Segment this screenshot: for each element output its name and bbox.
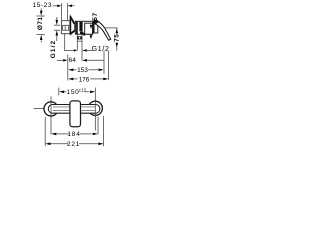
escutcheon housing box (side view) — [61, 21, 70, 34]
outlet nipple bottom edge — [77, 40, 82, 42]
handle lever base cap — [93, 20, 99, 24]
dim 153 line left segment — [73, 69, 76, 71]
dim 15-23 line left segment — [53, 5, 58, 7]
dim 176 left arrow — [68, 78, 73, 81]
dim 221 left extension line — [44, 117, 46, 146]
escutcheon cone bottom slant — [70, 30, 75, 35]
dim 75 line upper segment — [116, 28, 118, 33]
left circle centerline / dim 184 left extension — [50, 96, 52, 134]
dim 176 line right segment — [90, 78, 103, 80]
dim 57 lower arrow — [90, 35, 93, 39]
dim 153 left arrow — [68, 69, 73, 72]
dim 64 line right segment — [87, 59, 104, 61]
dim 15-23 right extension line — [66, 3, 68, 20]
dim 184 left arrow — [51, 133, 56, 136]
dim O71 top tick — [37, 15, 45, 17]
right escutcheon circle (front view) — [88, 101, 102, 115]
dim 150 left extension line — [58, 88, 60, 96]
dim 150 right extension line / right circle centerline — [94, 88, 96, 131]
svg-text:15-23: 15-23 — [32, 2, 52, 9]
dim 57 upper arrow — [90, 25, 93, 29]
dim 221 left arrow — [45, 143, 50, 146]
dim 176 right extension line — [108, 51, 110, 80]
dim G1/2 supply upper tail — [56, 17, 58, 20]
dim 221 right arrow — [98, 143, 103, 146]
tube inner line bottom-left — [53, 110, 70, 112]
outlet right extension line — [81, 41, 83, 60]
dim 15-23 line right segment — [68, 5, 74, 7]
dim 184 line right segment — [80, 133, 92, 135]
dim O71 bottom tick — [37, 34, 45, 36]
svg-text:G1/2: G1/2 — [92, 46, 110, 53]
dim 64 line left segment — [57, 59, 63, 61]
right circle centerline overlay — [94, 100, 96, 118]
svg-text:Ø71: Ø71 — [37, 17, 44, 31]
supply pipe drop line — [64, 34, 66, 51]
svg-text:150: 150 — [67, 89, 80, 96]
handle (front view) — [70, 101, 81, 127]
dim 15-23 left extension line (wall) — [60, 3, 62, 20]
outlet nipple — [77, 36, 82, 39]
dim 184 line left segment — [56, 133, 69, 135]
dim 153 line right segment — [88, 69, 98, 71]
dim O71 lower tail — [40, 40, 42, 42]
dim 153 right extension line — [103, 51, 105, 74]
handle lever (side view) — [95, 21, 111, 41]
left escutcheon circle (front view) — [44, 102, 58, 116]
dim 75 top arrow — [116, 28, 119, 33]
dim 15-23 right arrow — [68, 5, 72, 8]
dim 64 left arrow — [63, 59, 67, 62]
dim 64 right arrow — [82, 59, 87, 62]
dim 176 line left segment — [73, 78, 77, 80]
tube inner line bottom-right — [82, 110, 96, 112]
dim 184 right arrow — [93, 133, 98, 136]
svg-text:184: 184 — [67, 131, 80, 138]
outlet pipe right side — [81, 34, 83, 41]
mixer body tube (front view) — [48, 105, 100, 114]
dim G1/2 outlet line left segment — [65, 49, 74, 51]
dim G1/2 outlet right arrow — [82, 49, 87, 51]
svg-text:57: 57 — [92, 12, 99, 20]
svg-text:G1/2: G1/2 — [50, 40, 57, 59]
dim 150 left arrow — [59, 91, 64, 94]
svg-text:221: 221 — [67, 141, 80, 148]
tube inner line top-left — [53, 106, 70, 108]
tube inner line top-right — [82, 106, 96, 108]
dim 176 right arrow — [103, 78, 108, 81]
dim 221 right extension line — [103, 116, 105, 147]
svg-text:153: 153 — [77, 67, 88, 74]
dim 221 line right segment — [79, 143, 98, 145]
dim O71 bottom arrow — [40, 35, 43, 40]
dim 150 line left segment — [64, 91, 66, 93]
escutcheon cone top slant — [70, 16, 75, 24]
supply union stub divider — [64, 25, 66, 30]
dim 75 line lower segment — [116, 43, 118, 51]
dim G1/2 supply bottom tick — [54, 29, 60, 31]
outlet nipple bore — [79, 37, 81, 39]
dim 150 line right segment — [85, 91, 89, 93]
svg-text:176: 176 — [79, 76, 90, 83]
escutcheon flange bar — [70, 16, 72, 35]
left circle centerline overlay — [50, 100, 52, 117]
dim O71 upper tail — [40, 9, 42, 11]
dim 75 top extension line — [103, 27, 118, 29]
svg-text:64: 64 — [69, 57, 77, 64]
dim 150 right arrow — [90, 91, 95, 94]
supply union stub — [63, 25, 69, 30]
outlet left extension line — [76, 41, 78, 51]
svg-text:75: 75 — [114, 34, 121, 42]
dim 184 right extension line — [97, 117, 99, 135]
left escutcheon horizontal centerline — [34, 108, 48, 110]
escutcheon cone (side view) — [70, 16, 74, 34]
dim G1/2 supply top tick — [54, 24, 60, 26]
dim O71 top arrow — [40, 11, 43, 16]
dim G1/2 supply top arrow — [56, 20, 59, 25]
shared left extension line (dims 64/153/176) — [67, 55, 69, 81]
dim 75 bottom arrow — [116, 43, 119, 47]
svg-text:±12: ±12 — [79, 87, 87, 92]
outlet pipe left side — [76, 34, 78, 41]
dim G1/2 outlet line right segment — [87, 49, 93, 51]
dim G1/2 outlet left arrow — [74, 49, 77, 51]
mixer body (side view) — [75, 21, 97, 35]
dim G1/2 supply lower tail — [56, 36, 58, 41]
dim 221 line left segment — [50, 143, 68, 145]
dim 15-23 left arrow — [57, 5, 61, 8]
dim G1/2 supply bottom arrow — [56, 30, 59, 35]
dim 153 right arrow — [99, 69, 104, 72]
